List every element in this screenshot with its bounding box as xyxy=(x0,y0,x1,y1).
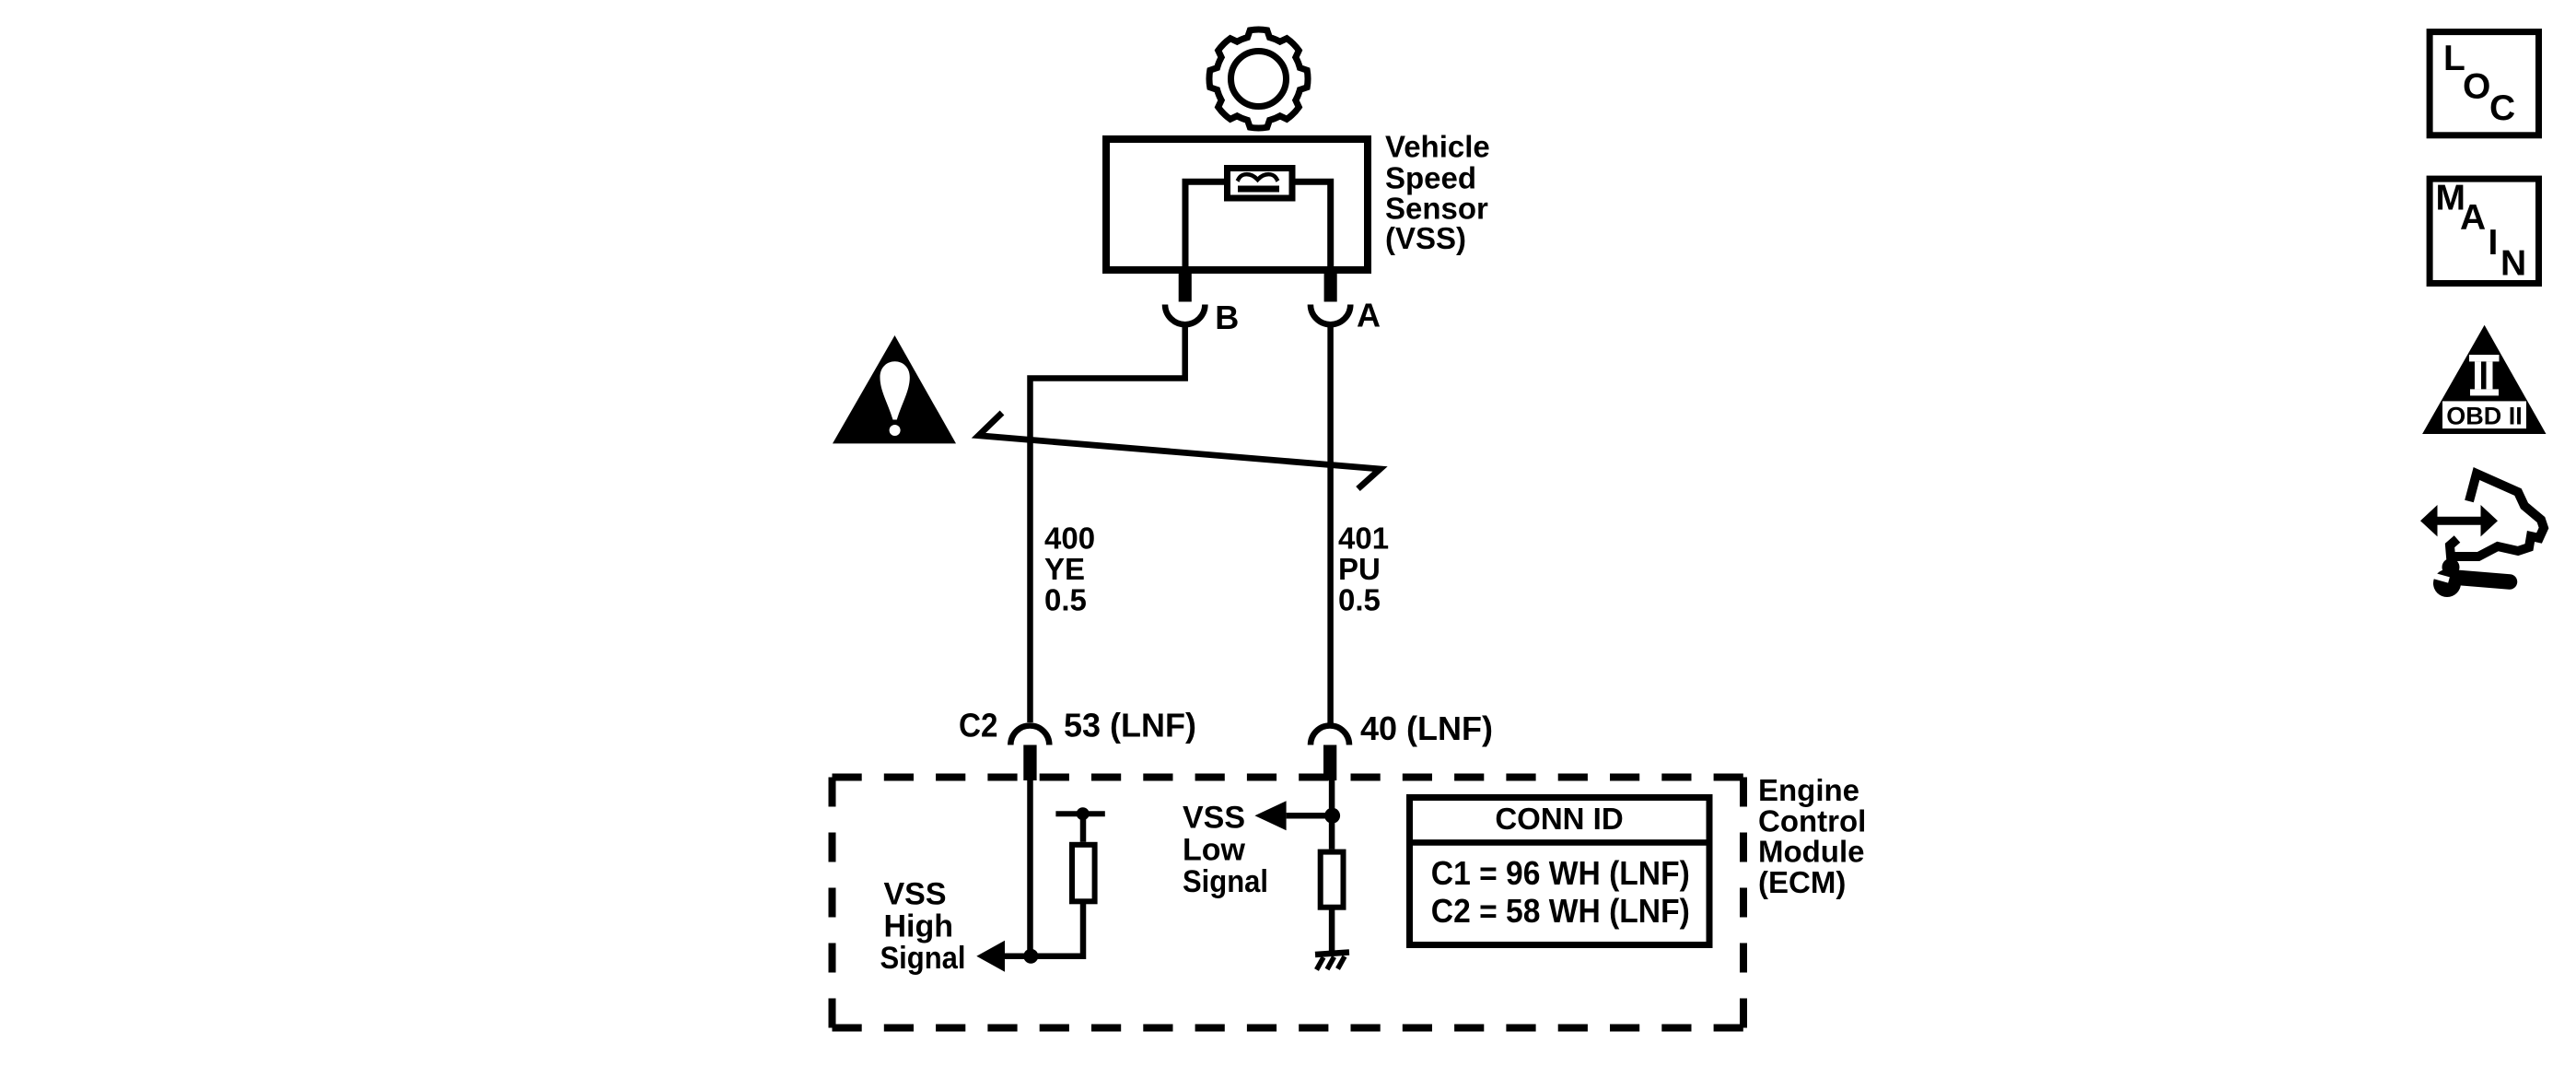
pin stub 40 (male) xyxy=(1323,745,1336,781)
DLC icon wrench head xyxy=(2433,569,2461,597)
wire C2 pin to junction xyxy=(1027,780,1033,956)
svg-text:O: O xyxy=(2463,67,2490,107)
DLC icon connector outline xyxy=(2450,474,2544,557)
left junction to resistor branch xyxy=(1031,904,1083,956)
gear hub ring xyxy=(1231,52,1287,107)
svg-text:C: C xyxy=(2489,88,2515,128)
svg-text:0.5: 0.5 xyxy=(1044,582,1087,616)
pin stub B (male) xyxy=(1179,271,1192,302)
svg-text:Module: Module xyxy=(1758,835,1864,869)
sensor wave glyph xyxy=(1238,174,1278,181)
pin stub C2 (male) xyxy=(1023,745,1036,781)
warning triangle xyxy=(833,335,956,443)
svg-text:A: A xyxy=(2460,198,2486,238)
svg-text:B: B xyxy=(1215,299,1239,336)
DLC icon wrench upper jaw xyxy=(2442,558,2460,576)
svg-text:C1 = 96 WH (LNF): C1 = 96 WH (LNF) xyxy=(1431,854,1690,892)
resistor top lead xyxy=(1080,814,1087,842)
svg-text:Signal: Signal xyxy=(880,941,966,976)
LOC box xyxy=(2430,32,2538,135)
ECM dashed border left xyxy=(829,778,836,1028)
svg-text:CONN ID: CONN ID xyxy=(1495,802,1623,836)
ECM dashed border bottom xyxy=(833,1025,1744,1032)
pin stub A (male) xyxy=(1324,271,1337,302)
svg-text:VSS: VSS xyxy=(884,877,947,912)
OBD II roman numeral II xyxy=(2469,355,2500,395)
right junction dot xyxy=(1324,808,1340,824)
gear icon above VSS xyxy=(1209,29,1308,128)
svg-text:Vehicle: Vehicle xyxy=(1385,130,1490,164)
svg-text:C2: C2 xyxy=(959,707,998,744)
svg-text:0.5: 0.5 xyxy=(1338,582,1381,616)
wire 40 pin to junction xyxy=(1329,780,1335,850)
CONN ID table outer box xyxy=(1410,798,1710,945)
sensor element box inside VSS xyxy=(1228,169,1293,199)
wire inside VSS box left xyxy=(1185,182,1227,270)
connector cup A (female) xyxy=(1311,305,1350,325)
svg-text:Speed: Speed xyxy=(1385,160,1476,194)
connector dome 40 (female) xyxy=(1311,726,1349,745)
resistor R-low xyxy=(1321,852,1344,908)
sensor bar xyxy=(1238,186,1279,193)
svg-text:Control: Control xyxy=(1758,804,1866,838)
resistor bottom lead to ground xyxy=(1329,908,1335,952)
svg-text:40 (LNF): 40 (LNF) xyxy=(1360,709,1493,747)
VSS component box xyxy=(1106,139,1368,270)
harness pointer diagonal xyxy=(979,413,1381,489)
svg-text:Signal: Signal xyxy=(1183,864,1268,899)
connector dome C2 (female) xyxy=(1010,726,1049,745)
OBD II triangle xyxy=(2422,325,2546,434)
svg-text:53 (LNF): 53 (LNF) xyxy=(1064,707,1196,744)
warning triangle exclamation drop xyxy=(880,361,910,419)
VSS High Signal arrow line xyxy=(1005,953,1031,959)
wire 400 from B to C2 xyxy=(1031,323,1185,722)
wire 401 from A down xyxy=(1327,323,1334,727)
resistor top junction dot xyxy=(1077,807,1090,820)
warning triangle exclamation dot xyxy=(890,425,901,436)
svg-text:C2 = 58 WH (LNF): C2 = 58 WH (LNF) xyxy=(1431,892,1690,930)
svg-text:High: High xyxy=(884,908,954,943)
wire inside VSS box right xyxy=(1293,182,1331,270)
left junction dot xyxy=(1023,949,1038,964)
svg-text:YE: YE xyxy=(1044,552,1085,586)
MAIN box xyxy=(2430,179,2538,283)
resistor R-high xyxy=(1072,845,1095,902)
svg-text:VSS: VSS xyxy=(1183,801,1245,836)
svg-text:I: I xyxy=(2489,223,2499,263)
svg-text:(ECM): (ECM) xyxy=(1758,865,1846,899)
svg-text:Low: Low xyxy=(1183,832,1246,867)
svg-text:OBD II: OBD II xyxy=(2446,403,2523,430)
DLC icon double arrow xyxy=(2420,505,2498,536)
svg-text:400: 400 xyxy=(1044,521,1095,555)
ECM dashed border right xyxy=(1740,778,1747,1028)
CONN ID table divider xyxy=(1406,839,1712,846)
resistor top bar xyxy=(1055,811,1104,816)
VSS Low Signal arrowhead xyxy=(1254,801,1286,830)
DLC icon wrench jaw slot xyxy=(2430,575,2450,580)
svg-text:Engine: Engine xyxy=(1758,773,1859,807)
svg-text:A: A xyxy=(1357,296,1381,334)
svg-text:(VSS): (VSS) xyxy=(1385,221,1466,255)
connector cup B (female) xyxy=(1165,305,1205,325)
DLC icon wrench handle xyxy=(2459,578,2510,582)
svg-text:401: 401 xyxy=(1338,521,1389,555)
ground symbol xyxy=(1315,953,1349,970)
ECM dashed border top xyxy=(833,774,1744,781)
OBD II label box xyxy=(2442,401,2526,428)
VSS Low Signal arrow line xyxy=(1287,813,1333,819)
svg-text:PU: PU xyxy=(1338,552,1381,586)
svg-text:N: N xyxy=(2500,244,2526,284)
VSS High Signal arrowhead xyxy=(976,941,1005,972)
